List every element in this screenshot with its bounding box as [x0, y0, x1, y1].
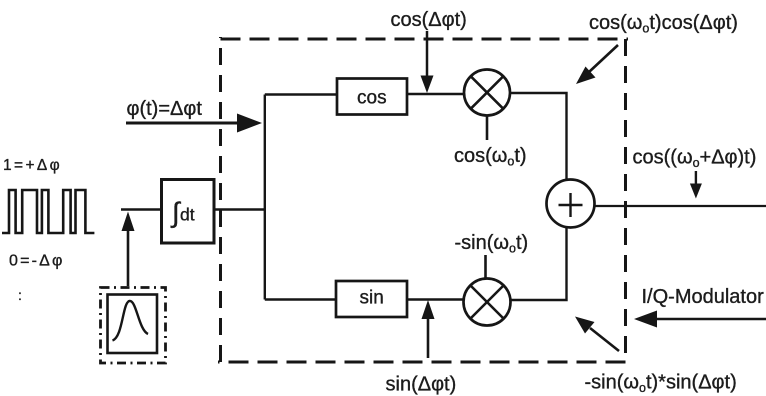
svg-text:cos(ωot): cos(ωot) [454, 145, 527, 169]
carrier stub below top multiplier [486, 116, 489, 141]
bottom multiplier X [471, 286, 504, 319]
svg-text:φ(t)=Δφt: φ(t)=Δφt [127, 98, 203, 120]
svg-text:sin: sin [360, 288, 384, 309]
gauss pulse curve [113, 301, 149, 341]
wire top multiplier to corner [510, 93, 567, 180]
arrow from cos(dphi t) label down to top wire [421, 31, 434, 93]
summer circle [547, 180, 595, 228]
sin block [336, 281, 407, 317]
bottom multiplier circle [464, 279, 511, 326]
cos block [337, 79, 407, 115]
svg-text:1=+Δφ: 1=+Δφ [3, 157, 62, 174]
carrier stub above bottom multiplier [484, 255, 487, 279]
gauss filter outer dash-dot box [101, 288, 166, 364]
gauss filter inner box [108, 295, 158, 354]
wire sin block to bottom multiplier [407, 298, 463, 300]
dashed boundary box I/Q modulator [218, 37, 628, 362]
arrow I/Q label pointing left at box [634, 311, 766, 328]
wire waveform to integrator [121, 208, 162, 210]
svg-text:I/Q-Modulator: I/Q-Modulator [642, 286, 765, 308]
svg-text::: : [18, 287, 22, 303]
arrow product label up-left to corner [575, 317, 619, 352]
arrow from gauss filter up to input wire [122, 212, 135, 287]
wire branch to cos block [265, 93, 337, 95]
integrator block [162, 180, 215, 244]
summer plus sign [559, 193, 583, 217]
wire bottom multiplier to summer [511, 228, 567, 300]
svg-text:sin(Δφt): sin(Δφt) [386, 374, 457, 396]
svg-text:-sin(ωot)*sin(Δφt): -sin(ωot)*sin(Δφt) [585, 372, 737, 396]
wire integrator to branch node [214, 208, 266, 210]
arrow phi(t) input into modulator [126, 114, 262, 133]
small arrow output label to wire [690, 171, 702, 199]
branch vertical wire [264, 95, 266, 300]
arrow from product label down-left to wire corner [576, 45, 618, 84]
output wire [595, 205, 766, 207]
svg-text:cos(Δφt): cos(Δφt) [391, 9, 467, 31]
wire branch to sin block [265, 298, 336, 300]
arrow sin(dphi t) up to wire [422, 300, 435, 358]
svg-text:0=-Δφ: 0=-Δφ [9, 253, 65, 270]
svg-text:cos: cos [357, 88, 387, 109]
top multiplier circle [464, 70, 510, 116]
data square wave [2, 190, 94, 233]
svg-text:cos(ωot)cos(Δφt): cos(ωot)cos(Δφt) [589, 12, 738, 36]
top multiplier X [471, 76, 503, 108]
wire cos block to top multiplier [407, 93, 464, 95]
svg-text:-sin(ωot): -sin(ωot) [455, 232, 529, 256]
svg-text:dt: dt [180, 205, 195, 225]
